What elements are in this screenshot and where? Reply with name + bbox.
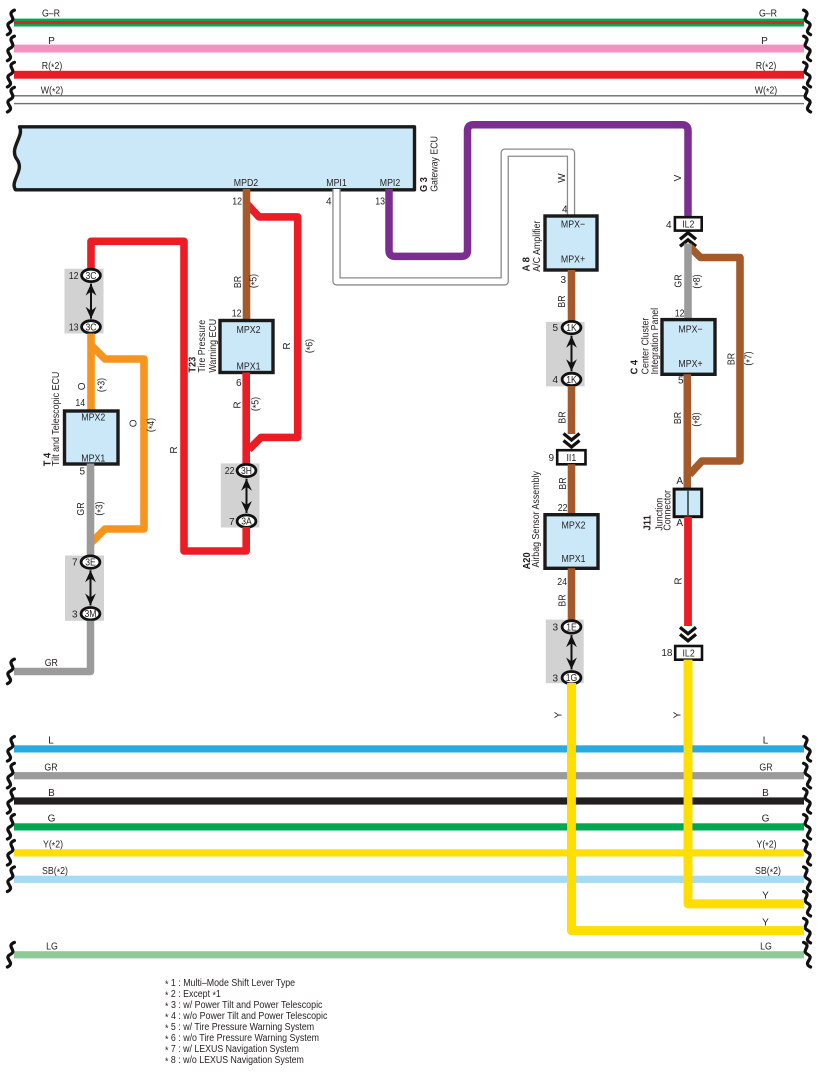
svg-text:12: 12 <box>675 309 685 320</box>
svg-text:13: 13 <box>375 197 385 208</box>
svg-text:Tire Pressure: Tire Pressure <box>197 319 208 372</box>
wire BR (*8) C4 to J11 <box>673 374 704 489</box>
svg-text:GR: GR <box>759 763 772 774</box>
svg-text:(*3): (*3) <box>97 378 109 392</box>
svg-text:LG: LG <box>46 942 58 953</box>
connector 1K-1K <box>546 321 585 386</box>
connector IL2 pin 18 <box>661 646 702 660</box>
svg-text:(*7): (*7) <box>744 351 756 365</box>
svg-text:1K: 1K <box>566 323 577 334</box>
junction chevrons below IL2 <box>680 233 696 240</box>
svg-text:MPX−: MPX− <box>678 325 702 336</box>
connector 3E-3M <box>65 556 104 621</box>
svg-text:(*5): (*5) <box>249 274 261 288</box>
svg-text:4: 4 <box>562 205 568 216</box>
svg-text:5: 5 <box>678 376 684 387</box>
svg-text:(*5): (*5) <box>250 397 262 411</box>
svg-text:3C: 3C <box>86 271 97 282</box>
notes legend <box>165 978 327 1067</box>
wire O (*3) 3C to T4 <box>77 334 109 413</box>
wire R 3A to 3C loop <box>91 241 246 551</box>
svg-text:3M: 3M <box>85 609 97 620</box>
svg-text:* 8 : w/o LEXUS Navigation Sys: * 8 : w/o LEXUS Navigation System <box>165 1055 304 1067</box>
wire L bus <box>7 736 810 761</box>
svg-text:Integration Panel: Integration Panel <box>650 308 661 375</box>
ECU A20 Airbag Sensor Assembly <box>521 471 598 569</box>
svg-text:12: 12 <box>69 271 79 282</box>
wire GR 3M to left breakout <box>7 621 90 684</box>
svg-text:V: V <box>673 174 684 181</box>
gateway ECU G3 box <box>14 127 440 192</box>
svg-text:SB(*2): SB(*2) <box>42 866 68 878</box>
svg-text:(*6): (*6) <box>304 339 316 353</box>
svg-text:7: 7 <box>229 517 235 528</box>
wire R (*5) T23 to 3H <box>233 373 263 465</box>
svg-text:MPX1: MPX1 <box>237 361 261 372</box>
connector 1E-1G <box>546 620 584 685</box>
svg-text:A 8: A 8 <box>520 257 532 272</box>
svg-text:4: 4 <box>666 220 672 231</box>
svg-text:MPX+: MPX+ <box>561 254 585 265</box>
svg-text:B: B <box>762 788 769 799</box>
svg-text:1K: 1K <box>566 375 577 386</box>
ECU A8 A/C Amplifier <box>520 216 597 272</box>
svg-text:SB(*2): SB(*2) <box>755 866 781 878</box>
svg-text:W: W <box>557 173 568 183</box>
connector IL2 pin 4 <box>666 217 702 231</box>
svg-text:MPX1: MPX1 <box>81 453 105 464</box>
wire GR (*8) IL2 to C4 <box>674 244 705 321</box>
svg-text:Connector: Connector <box>663 489 674 530</box>
svg-text:3: 3 <box>560 275 566 286</box>
svg-text:O: O <box>128 419 139 427</box>
svg-text:W(*2): W(*2) <box>755 86 778 98</box>
svg-text:3A: 3A <box>241 517 252 528</box>
svg-text:MPI2: MPI2 <box>380 178 401 189</box>
svg-text:MPI1: MPI1 <box>326 178 347 189</box>
wire BR A20 to 1E <box>558 568 572 620</box>
svg-text:BR: BR <box>558 594 569 606</box>
svg-text:P: P <box>761 36 768 47</box>
svg-text:Y: Y <box>673 711 684 718</box>
svg-text:R: R <box>233 401 244 408</box>
svg-text:3: 3 <box>552 673 558 684</box>
svg-text:3C: 3C <box>86 322 97 333</box>
svg-text:R: R <box>169 446 180 453</box>
wire BR (*5) MPD2 to T23 <box>233 189 261 320</box>
svg-text:BR: BR <box>726 353 737 365</box>
svg-text:A: A <box>676 518 683 529</box>
svg-text:Tilt and Telescopic ECU: Tilt and Telescopic ECU <box>51 372 62 466</box>
junction chevrons above II1 <box>564 441 580 448</box>
wire O (*4) bypass <box>91 345 158 543</box>
svg-text:G: G <box>48 814 56 825</box>
wire Y(*2) bus <box>7 840 810 865</box>
svg-text:P: P <box>48 36 55 47</box>
svg-text:1E: 1E <box>566 622 577 633</box>
svg-text:Warning ECU: Warning ECU <box>208 319 219 373</box>
svg-text:BR: BR <box>558 411 569 423</box>
svg-text:MPX+: MPX+ <box>678 359 702 370</box>
svg-text:A/C Amplifier: A/C Amplifier <box>532 220 543 272</box>
connector 3H-3A <box>221 463 260 527</box>
svg-text:6: 6 <box>236 378 242 389</box>
wire G bus <box>7 814 810 839</box>
svg-text:BR: BR <box>233 276 244 288</box>
junction chevrons above IL2-18 <box>680 634 696 641</box>
svg-text:18: 18 <box>661 648 673 659</box>
svg-text:BR: BR <box>673 412 684 424</box>
svg-text:4: 4 <box>552 375 558 386</box>
svg-text:L: L <box>48 736 54 747</box>
svg-text:IL2: IL2 <box>683 648 696 659</box>
wire Y IL2 to right breakout <box>673 660 805 904</box>
svg-text:R(*2): R(*2) <box>42 61 63 73</box>
svg-text:C 4: C 4 <box>628 360 640 375</box>
svg-text:14: 14 <box>75 398 85 409</box>
svg-text:LG: LG <box>760 942 772 953</box>
svg-text:G–R: G–R <box>759 9 777 20</box>
svg-text:GR: GR <box>674 274 685 287</box>
svg-text:W(*2): W(*2) <box>41 86 64 98</box>
svg-text:3: 3 <box>552 623 558 634</box>
wire R (*6) bypass <box>247 204 317 449</box>
wire Y vertical overlays <box>572 683 805 931</box>
wire BR II1 to A20 <box>558 464 572 515</box>
wire GR (*3) T4 to 3E <box>76 464 107 556</box>
svg-text:12: 12 <box>232 309 242 320</box>
svg-text:L: L <box>763 736 769 747</box>
svg-text:G–R: G–R <box>42 9 60 20</box>
wire Y 1G to right breakout <box>553 683 804 931</box>
svg-text:G: G <box>762 814 770 825</box>
svg-text:Gateway ECU: Gateway ECU <box>430 136 441 192</box>
svg-text:24: 24 <box>557 577 567 588</box>
svg-text:GR: GR <box>45 658 58 669</box>
svg-text:GR: GR <box>76 502 87 515</box>
svg-text:(*8): (*8) <box>692 274 704 288</box>
wire BR (*7) bypass around C4 <box>690 247 756 475</box>
svg-text:(*8): (*8) <box>692 412 704 426</box>
svg-text:IL2: IL2 <box>682 220 695 231</box>
wire R J11 to IL2 <box>673 517 688 626</box>
svg-text:7: 7 <box>72 558 78 569</box>
ECU T4 Tilt and Telescopic ECU <box>42 372 118 467</box>
wire R(*2) bus (red) <box>7 61 810 87</box>
svg-text:MPD2: MPD2 <box>234 178 259 189</box>
svg-text:R: R <box>282 342 293 349</box>
svg-text:Y: Y <box>553 711 564 718</box>
svg-text:O: O <box>77 382 88 390</box>
svg-text:J11: J11 <box>642 515 654 531</box>
svg-text:R(*2): R(*2) <box>756 61 777 73</box>
svg-text:II1: II1 <box>566 453 576 464</box>
wire P bus (pink) <box>7 36 810 61</box>
svg-text:MPX−: MPX− <box>561 220 585 231</box>
svg-text:22: 22 <box>225 466 235 477</box>
svg-text:(*4): (*4) <box>146 418 158 432</box>
wire GR bus <box>7 763 810 788</box>
wire Y breakout lower right end <box>762 918 810 943</box>
svg-text:Y(*2): Y(*2) <box>757 840 777 852</box>
svg-text:Y(*2): Y(*2) <box>43 840 63 852</box>
svg-text:A: A <box>676 476 683 487</box>
connector II1 <box>548 450 585 464</box>
wire W white MPI1 to A8 pin 4 <box>337 153 572 282</box>
svg-text:12: 12 <box>232 197 242 208</box>
svg-text:(*3): (*3) <box>95 501 107 515</box>
svg-text:3E: 3E <box>85 558 96 569</box>
wire BR A8 to 1K <box>557 270 572 322</box>
svg-text:4: 4 <box>326 197 332 208</box>
wire B bus <box>7 788 810 813</box>
svg-text:3H: 3H <box>241 466 252 477</box>
wire Y breakout upper right end <box>762 891 810 917</box>
svg-text:13: 13 <box>69 323 79 334</box>
svg-text:BR: BR <box>557 295 568 307</box>
svg-text:B: B <box>48 788 55 799</box>
svg-text:MPX2: MPX2 <box>237 325 261 336</box>
svg-text:G 3: G 3 <box>418 177 430 192</box>
svg-text:MPX1: MPX1 <box>562 554 586 565</box>
wire G-R bus (green-red striped) <box>7 9 810 35</box>
svg-text:MPX2: MPX2 <box>562 520 586 531</box>
wire LG bus <box>7 942 810 967</box>
ECU C4 Center Cluster Integration Panel <box>628 308 715 375</box>
svg-text:5: 5 <box>552 323 558 334</box>
svg-text:3: 3 <box>72 609 78 620</box>
wire SB(*2) bus <box>7 866 810 891</box>
svg-text:MPX2: MPX2 <box>81 413 105 424</box>
svg-text:Airbag Sensor Assembly: Airbag Sensor Assembly <box>531 471 542 567</box>
svg-text:BR: BR <box>558 477 569 489</box>
svg-text:R: R <box>673 577 684 584</box>
ECU T23 Tire Pressure Warning ECU <box>186 319 273 373</box>
wire V purple MPI2 to IL2 <box>389 125 688 257</box>
svg-text:5: 5 <box>79 467 85 478</box>
svg-text:1G: 1G <box>566 673 578 684</box>
svg-text:9: 9 <box>548 453 554 464</box>
wire W(*2) bus (white with outline) <box>7 86 810 112</box>
wire BR 1K to II1 <box>558 386 572 434</box>
connector 3C-3C <box>65 269 104 334</box>
svg-text:GR: GR <box>44 763 57 774</box>
junction connector J11 <box>642 489 702 530</box>
svg-text:22: 22 <box>558 503 568 514</box>
